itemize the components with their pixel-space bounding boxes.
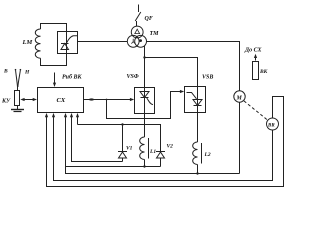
svg-text:L1: L1	[149, 149, 156, 155]
ground	[11, 106, 24, 112]
svg-text:КУ: КУ	[1, 99, 11, 105]
wire armature rail	[66, 167, 240, 174]
thyristor converter VSF	[135, 88, 155, 114]
svg-text:V2: V2	[167, 144, 174, 150]
svg-text:VSΦ: VSΦ	[127, 74, 139, 80]
thyristor converter VSB	[185, 87, 206, 113]
svg-text:L2: L2	[204, 152, 211, 158]
wire CX input 2 from BR bottom	[52, 113, 273, 181]
wire	[41, 24, 67, 32]
svg-text:До СХ: До СХ	[244, 48, 263, 54]
svg-text:BR: BR	[267, 123, 275, 128]
svg-text:LM: LM	[22, 39, 33, 46]
wire CX input 5 rail to V1 V2 tops	[76, 113, 161, 152]
node junction	[143, 165, 145, 167]
command controller KU	[15, 69, 22, 106]
thyristor box shunting LM	[58, 32, 78, 54]
svg-text:BK: BK	[259, 69, 268, 75]
svg-text:TM: TM	[150, 31, 160, 37]
wire	[78, 41, 128, 43]
mechanical coupling dashed	[244, 101, 268, 121]
wire motor bottom	[239, 102, 241, 173]
wire TM bottom stem	[144, 46, 146, 88]
node junction	[106, 99, 108, 101]
reactor L1	[140, 114, 149, 167]
svg-text:M: M	[236, 95, 243, 101]
wire CX input 1 from BR top loop	[45, 97, 284, 187]
wire CX input 4 from V1	[70, 113, 123, 162]
svg-text:QF: QF	[145, 16, 153, 22]
input arrow Rib VK	[53, 73, 56, 88]
wire CX to VSF with arrow	[84, 98, 135, 101]
wire KU to CX double arrow	[20, 98, 37, 101]
wire gate branch to VSB	[107, 90, 185, 119]
wire	[41, 54, 67, 66]
svg-text:В: В	[3, 69, 8, 75]
node junction	[143, 56, 145, 58]
control block CX	[38, 88, 84, 113]
limit switch VK	[253, 62, 259, 80]
svg-text:CX: CX	[57, 97, 66, 104]
diode V2	[156, 152, 165, 167]
node junction	[196, 172, 198, 174]
reactor L2	[193, 113, 202, 174]
svg-text:V1: V1	[126, 146, 133, 152]
wire TM to motor	[147, 42, 240, 91]
inductor LM	[35, 29, 40, 58]
breaker QF	[135, 5, 141, 27]
transformer TM	[127, 26, 146, 47]
svg-text:VSB: VSB	[202, 75, 213, 81]
wire CX input 3 rail L1 V2	[64, 113, 161, 167]
output arrow to CX	[254, 54, 257, 61]
svg-text:Н: Н	[24, 70, 30, 76]
svg-text:Риб ВК: Риб ВК	[62, 74, 82, 81]
diode V1	[118, 125, 127, 162]
wire branch to VSB	[145, 58, 198, 87]
motor M	[234, 91, 245, 102]
tachogenerator BR	[267, 118, 279, 130]
node junction	[121, 123, 123, 125]
